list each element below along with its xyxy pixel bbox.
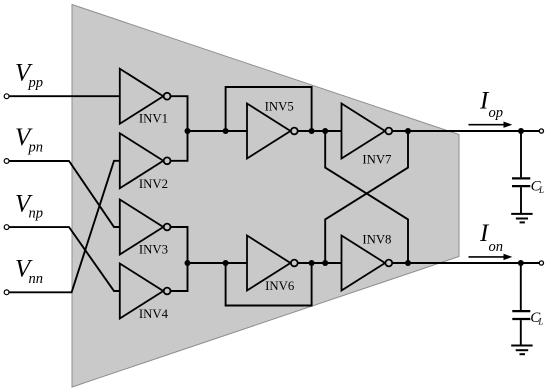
node INV8 output junction dot (405, 260, 411, 266)
current arrow Ion (469, 254, 513, 260)
amplifier body (72, 5, 459, 388)
node Ion capacitor junction dot (518, 260, 524, 266)
ground (bottom) (511, 346, 532, 355)
wire Vnp input to INV4 (diagonal) (9, 227, 120, 291)
wire INV8 output to Ion terminal (392, 262, 540, 264)
input terminal Vnp (4, 225, 9, 230)
node INV7 input cross junction dot (322, 128, 328, 134)
inverter INV6 (247, 236, 298, 291)
wire INV4 output up to node B (171, 263, 188, 291)
wire INV5 feedback loop (226, 87, 312, 131)
wire INV1 output down to node A (171, 96, 188, 131)
inverter INV3 (120, 200, 171, 255)
svg-text:INV4: INV4 (139, 307, 169, 321)
wire Vpp input to INV1 (9, 95, 120, 97)
capacitor CL (top) (512, 178, 530, 186)
node INV5 feedback junction dot (309, 128, 315, 134)
svg-text:np: np (29, 206, 44, 222)
current arrow Iop (469, 122, 513, 128)
ground (top) (511, 214, 532, 223)
wire node A to INV5 input (188, 130, 248, 132)
svg-text:INV7: INV7 (362, 153, 392, 167)
wire Vnn input to INV2 (diagonal) (9, 161, 120, 292)
svg-text:L: L (538, 185, 544, 195)
inverter INV8 (342, 236, 393, 291)
output terminal Iop (539, 129, 543, 133)
svg-text:pn: pn (28, 140, 44, 156)
svg-text:INV5: INV5 (265, 100, 294, 114)
svg-text:L: L (537, 317, 543, 327)
svg-text:INV6: INV6 (265, 279, 295, 293)
node INV8 input cross junction dot (322, 260, 328, 266)
node A junction dot (185, 128, 191, 134)
wire Iop node to capacitor CL top (520, 131, 522, 177)
inverter INV5 (247, 104, 298, 159)
input terminal Vpn (4, 159, 9, 164)
svg-text:INV1: INV1 (139, 112, 168, 126)
wire INV2 output up to node A (171, 131, 188, 161)
wire INV3 output down to node B (171, 227, 188, 263)
inverter INV2 (120, 133, 171, 188)
inverter INV7 (342, 104, 393, 159)
inverter INV1 (120, 69, 171, 124)
wire cross-couple INV7 output to INV8 input (325, 131, 408, 263)
svg-text:INV8: INV8 (362, 233, 391, 247)
node B junction dot (185, 260, 191, 266)
svg-text:pp: pp (28, 75, 44, 91)
svg-text:INV2: INV2 (139, 177, 168, 191)
inverter INV4 (120, 264, 171, 319)
input terminal Vnn (4, 290, 9, 295)
output terminal Ion (539, 261, 543, 265)
wire INV7 output to Iop terminal (392, 130, 540, 132)
input terminal Vpp (4, 94, 9, 99)
node INV6 feedback junction dot (309, 260, 315, 266)
svg-text:INV3: INV3 (139, 243, 168, 257)
svg-text:nn: nn (29, 271, 44, 287)
wire INV5 output to INV7 input (298, 130, 342, 132)
wire INV6 feedback loop (226, 263, 312, 306)
svg-text:op: op (489, 105, 504, 121)
capacitor CL (bottom) (512, 311, 530, 319)
wire INV6 output to INV8 input (298, 262, 342, 264)
node INV7 output junction dot (405, 128, 411, 134)
node INV5 input junction dot (223, 128, 229, 134)
wire cross-couple INV7 input to INV8 output (325, 131, 408, 263)
wire capacitor CL bottom to ground (520, 320, 522, 345)
wire capacitor CL top to ground (520, 187, 522, 213)
svg-text:on: on (489, 239, 504, 255)
node INV6 input junction dot (223, 260, 229, 266)
wire Ion node to capacitor CL bottom (520, 263, 522, 310)
node Iop capacitor junction dot (518, 128, 524, 134)
wire node B to INV6 input (188, 262, 248, 264)
wire Vpn input to INV3 (diagonal) (9, 161, 120, 227)
